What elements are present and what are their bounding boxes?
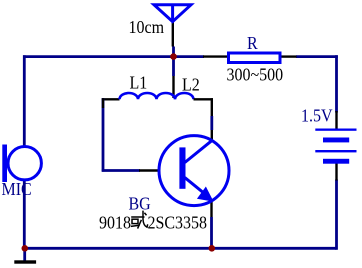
battery B1 plate 1 (long positive): [315, 129, 356, 131]
svg-text:MIC: MIC: [2, 179, 32, 199]
emitter pin black: [210, 200, 212, 218]
battery B1 plate 3 (long positive): [315, 150, 356, 152]
coil loop left vertical black stub at corner: [102, 98, 104, 108]
wire right rail vertical below battery: [335, 180, 338, 250]
transistor base pin black: [139, 169, 180, 171]
resistor left pin: [203, 55, 228, 57]
antenna pin black: [172, 22, 174, 47]
inductor L2 (1 turn): [175, 93, 194, 99]
wire MIC bottom to ground junction: [23, 180, 26, 248]
coil loop left vertical wire: [102, 98, 105, 171]
battery top pin: [335, 111, 337, 129]
label Chinese character huo (or) drawn as strokes: [131, 211, 148, 229]
collector lead black upper: [211, 98, 213, 116]
transistor collector stroke: [185, 140, 212, 162]
wire resistor right to top-right corner: [296, 55, 338, 58]
emitter net wire navy: [210, 217, 213, 248]
coil loop top-left lead black: [102, 98, 120, 100]
svg-text:L1: L1: [130, 73, 148, 93]
wire top horizontal net (antenna to resistor left / left rail): [23, 55, 204, 58]
svg-text:1.5V: 1.5V: [301, 105, 333, 125]
battery B1 plate 2 (short negative): [323, 138, 349, 143]
junction node emitter/bottom rail: [209, 245, 216, 252]
resistor R body: [229, 53, 281, 63]
svg-text:R: R: [247, 33, 258, 53]
transistor emitter stroke: [185, 178, 204, 194]
transistor BG body circle: [159, 136, 229, 206]
wire bottom rail horizontal: [23, 247, 337, 250]
transistor base bar: [179, 147, 185, 188]
inductor L1 (3 turns): [120, 93, 176, 99]
wire coil tap pin black: [172, 76, 174, 98]
svg-text:10cm: 10cm: [129, 17, 165, 37]
microphone MIC back plate bar: [2, 145, 7, 183]
collector pin black lower: [211, 130, 213, 142]
resistor right pin: [281, 55, 297, 57]
collector net wire navy: [210, 116, 213, 130]
svg-text:9018: 9018: [99, 213, 131, 233]
ground symbol bar: [14, 260, 36, 263]
microphone MIC body circle: [8, 147, 41, 180]
junction node antenna/top rail: [170, 53, 177, 60]
wire right rail vertical above battery: [335, 55, 338, 112]
wire antenna net vertical (junction down toward coil tap): [172, 47, 175, 77]
svg-text:BG: BG: [129, 194, 151, 214]
svg-text:2SC3358: 2SC3358: [148, 213, 208, 233]
coil loop bottom wire navy: [102, 169, 140, 172]
transistor emitter arrowhead: [198, 187, 213, 201]
svg-text:300~500: 300~500: [227, 64, 284, 84]
antenna symbol: [154, 5, 191, 22]
svg-text:L2: L2: [182, 75, 200, 95]
junction node MIC/bottom rail/ground: [22, 245, 29, 252]
ground stub wire: [23, 248, 26, 261]
battery bottom pin: [335, 163, 337, 181]
wire left rail vertical (top corner down to MIC): [23, 55, 26, 146]
coil right lead black: [194, 98, 214, 100]
battery B1 plate 4 (short negative): [323, 159, 349, 164]
